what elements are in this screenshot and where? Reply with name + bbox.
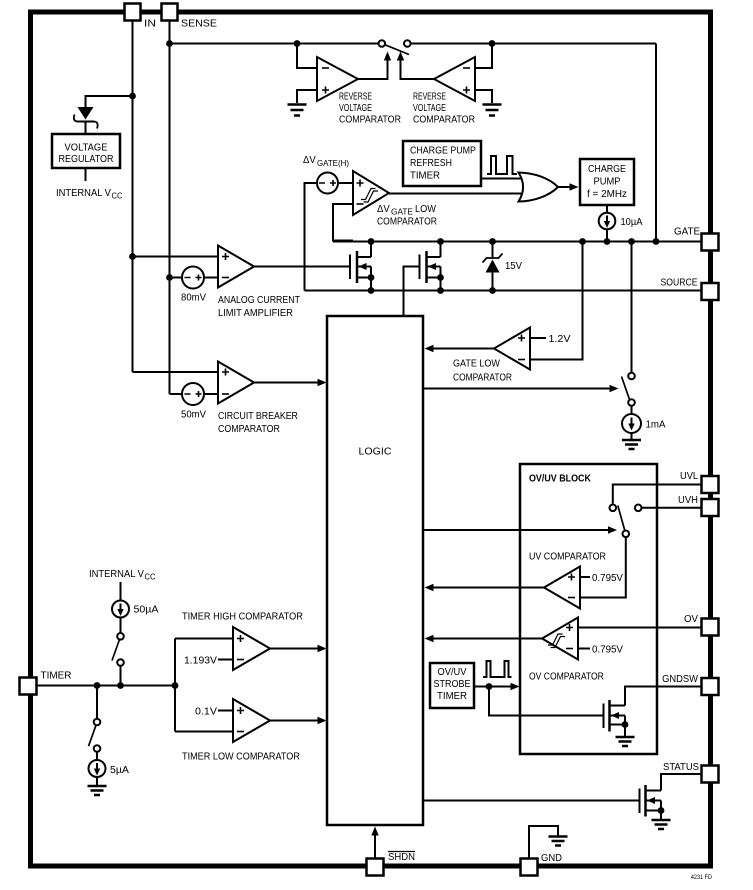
wire 50mV to minus input: [204, 393, 218, 395]
op-amp right reverse voltage comparator: [434, 57, 475, 101]
wire amp output to M1 gate: [254, 266, 350, 268]
wire M2 gate to LOGIC: [404, 267, 420, 317]
switch UV select: [610, 505, 642, 538]
wire SENSE to 80mV: [170, 277, 183, 279]
pin GNDSW: [662, 674, 718, 695]
svg-text:LIMIT AMPLIFIER: LIMIT AMPLIFIER: [218, 308, 293, 320]
wire strobe to GNDSW FET gate: [489, 687, 604, 716]
source 80mV offset: [182, 267, 204, 289]
wire regulator output: [85, 168, 87, 181]
svg-text:OV: OV: [684, 614, 698, 625]
svg-text:f = 2MHz: f = 2MHz: [587, 189, 627, 200]
wire IN to breaker plus input: [133, 371, 219, 373]
wire GATE rail: [333, 241, 702, 243]
op-amp analog current limit amplifier: [218, 246, 254, 288]
pin OV: [684, 614, 718, 636]
wire LOGIC to STATUS FET gate: [423, 800, 640, 802]
transistor GNDSW FET: [604, 700, 629, 736]
svg-text:SHDN: SHDN: [388, 852, 415, 864]
svg-text:INTERNAL V: INTERNAL V: [89, 569, 144, 581]
svg-text:UVH: UVH: [678, 495, 698, 507]
node SENSE to 80mV junction: [166, 274, 173, 281]
svg-text:TIMER: TIMER: [410, 170, 440, 181]
node GATE rail junctions: [368, 238, 660, 245]
op-amp timer high comparator: [233, 627, 270, 670]
op-amp timer low comparator: [233, 699, 270, 742]
transistor M1 pass FET: [350, 242, 374, 291]
svg-text:SENSE: SENSE: [181, 18, 217, 30]
label INTERNAL VCC: [56, 188, 123, 201]
svg-text:LOW: LOW: [415, 203, 437, 215]
svg-text:INTERNAL V: INTERNAL V: [56, 188, 111, 200]
wire right RV comp plus input: [475, 90, 492, 103]
pulse waveform refresh: [487, 156, 517, 174]
wire TIMER to discharge switch: [96, 686, 98, 719]
wire left RV comp plus input: [297, 90, 317, 103]
block LOGIC: [327, 316, 423, 825]
diode zener 15V: [483, 242, 503, 291]
wire SOURCE rail: [305, 290, 702, 292]
wire OV plus to OV pin: [578, 627, 702, 629]
svg-text:50mV: 50mV: [181, 409, 206, 420]
pin GATE: [674, 226, 718, 250]
node TIMER rail junctions: [94, 682, 179, 689]
wire UV comp output to LOGIC: [433, 587, 544, 589]
wire OR gate output arrow: [557, 186, 570, 188]
svg-text:GATE LOW: GATE LOW: [453, 358, 501, 370]
ground GND symbol: [549, 837, 568, 846]
svg-text:GATE(H): GATE(H): [317, 159, 349, 168]
svg-text:TIMER: TIMER: [41, 670, 72, 681]
wire VCC to 50uA: [120, 582, 122, 601]
source 50mV offset: [182, 383, 204, 405]
wire right RV comp output: [401, 59, 435, 79]
OR gate U-or: [519, 173, 559, 202]
svg-text:COMPARATOR: COMPARATOR: [453, 372, 512, 384]
svg-text:CHARGE: CHARGE: [588, 163, 626, 175]
label left reverse voltage comparator: [339, 90, 401, 126]
block CHARGE PUMP f=2MHz: [580, 159, 634, 205]
wire current amp plus input: [133, 256, 219, 258]
svg-text:REFRESH: REFRESH: [410, 157, 452, 169]
wire rail to GATE drop: [655, 44, 657, 242]
wire strobe timer output: [474, 686, 511, 688]
pin IN: [125, 4, 157, 30]
transistor M2 pass FET: [420, 242, 444, 291]
svg-text:ΔV: ΔV: [377, 204, 390, 216]
switch timer discharge: [89, 719, 101, 752]
wire offset source to SOURCE rail: [305, 183, 318, 291]
svg-text:CHARGE PUMP: CHARGE PUMP: [410, 145, 476, 157]
switch timer charge: [112, 633, 124, 666]
label right reverse voltage comparator: [413, 90, 475, 126]
op-amp OV comparator: [542, 618, 578, 660]
svg-text:COMPARATOR: COMPARATOR: [339, 114, 401, 126]
wire STATUS pin to FET drain: [661, 774, 702, 791]
node strobe output junction: [486, 683, 493, 690]
wire comparator output to OR gate: [389, 193, 521, 195]
label delta-V GATE LOW COMPARATOR: [377, 203, 437, 227]
svg-text:1.193V: 1.193V: [184, 655, 217, 666]
svg-text:OV/UV: OV/UV: [438, 667, 467, 679]
block OV/UV STROBE TIMER: [430, 663, 474, 708]
wire switch to TIMER rail: [120, 666, 122, 686]
label CIRCUIT BREAKER COMPARATOR: [218, 410, 298, 435]
label INTERNAL VCC timer: [89, 569, 156, 582]
pin GND: [521, 853, 562, 876]
wire OV comp output to LOGIC: [433, 638, 542, 640]
wire 1.2V to plus input: [530, 337, 546, 339]
svg-text:STROBE: STROBE: [434, 678, 471, 690]
wire UVL pin to switch: [613, 485, 702, 504]
shunt zener diode: [74, 107, 98, 134]
wire minus input to GATE rail: [530, 242, 583, 360]
wire 5uA to ground: [96, 777, 98, 785]
wire UVH pin to switch: [642, 507, 702, 509]
block OV/UV BLOCK: [520, 464, 657, 754]
node IN to current amp junction: [129, 253, 136, 260]
wire high comp output to LOGIC: [270, 648, 318, 650]
svg-text:IN: IN: [144, 18, 156, 29]
node rail right junction: [489, 40, 496, 47]
svg-text:VOLTAGE: VOLTAGE: [413, 102, 446, 114]
pin SENSE: [162, 4, 217, 30]
wire comparator minus to GATE rail: [333, 204, 353, 241]
wire breaker output to LOGIC: [254, 382, 318, 384]
svg-text:VOLTAGE: VOLTAGE: [65, 142, 108, 154]
wire 0.1V to plus input: [218, 710, 233, 712]
switch reverse-blocking: [379, 40, 411, 54]
svg-text:0.1V: 0.1V: [195, 706, 218, 718]
wire 50uA to switch: [120, 618, 122, 634]
pin SOURCE: [661, 277, 719, 300]
wire switch to UV comparator minus: [580, 537, 626, 597]
wire left RV comp minus input: [297, 44, 317, 69]
pulse waveform strobe: [483, 661, 512, 677]
wire SENSE vertical: [169, 21, 171, 395]
ground 1mA: [622, 440, 641, 449]
svg-text:1mA: 1mA: [646, 419, 666, 430]
wire timer branch vertical: [174, 639, 176, 732]
wire switch to 5uA: [96, 752, 98, 760]
svg-text:TIMER: TIMER: [437, 691, 467, 702]
ground STATUS FET: [652, 820, 671, 829]
wire switch to 1mA: [631, 406, 633, 415]
svg-text:COMPARATOR: COMPARATOR: [413, 114, 475, 126]
svg-text:SOURCE: SOURCE: [661, 277, 698, 289]
wire regulator tap: [86, 96, 133, 107]
svg-text:10µA: 10µA: [621, 217, 643, 229]
svg-text:ΔV: ΔV: [303, 155, 316, 167]
ground 5uA: [88, 786, 107, 795]
wire SENSE top rail: [170, 43, 379, 45]
current source 1mA: [622, 414, 641, 433]
label delta-V GATE(H): [303, 155, 349, 168]
block VOLTAGE REGULATOR: [52, 134, 120, 168]
svg-text:REVERSE: REVERSE: [339, 90, 372, 102]
svg-text:COMPARATOR: COMPARATOR: [377, 216, 437, 228]
wire left RV comp output: [358, 59, 388, 79]
svg-text:50µA: 50µA: [134, 604, 160, 616]
wire TIMER rail: [37, 685, 176, 687]
svg-text:UVL: UVL: [680, 471, 698, 483]
svg-text:CC: CC: [145, 572, 156, 581]
wire 1.193V to minus input: [218, 659, 233, 661]
pin STATUS: [663, 762, 718, 783]
svg-text:TIMER LOW COMPARATOR: TIMER LOW COMPARATOR: [182, 751, 300, 763]
ground left RV comp: [288, 105, 307, 116]
wire branch to high comp plus: [175, 638, 233, 640]
switch gate pulldown: [622, 373, 635, 406]
pin SHDN: [367, 852, 416, 876]
node regulator tap junction: [129, 93, 136, 100]
node SOURCE rail junctions: [368, 287, 496, 294]
svg-text:80mV: 80mV: [181, 292, 206, 303]
op-amp delta-V GATE LOW comparator: [353, 171, 389, 215]
node SENSE rail junction: [166, 40, 173, 47]
op-amp UV comparator: [544, 567, 580, 609]
svg-text:0.795V: 0.795V: [592, 573, 623, 584]
wire GATE rail to 1mA switch: [631, 242, 633, 373]
current source 50uA: [112, 601, 129, 618]
wire GND pin elbow: [529, 826, 558, 859]
ground GNDSW FET: [616, 737, 635, 746]
wire branch to low comp minus: [175, 731, 233, 733]
op-amp circuit breaker comparator: [218, 362, 254, 404]
svg-text:CIRCUIT BREAKER: CIRCUIT BREAKER: [218, 410, 298, 422]
wire 80mV to minus input: [204, 277, 218, 279]
svg-text:OV/UV BLOCK: OV/UV BLOCK: [529, 473, 591, 485]
op-amp left reverse voltage comparator: [317, 57, 358, 101]
svg-text:ANALOG CURRENT: ANALOG CURRENT: [218, 294, 300, 306]
pin TIMER: [20, 670, 72, 694]
svg-text:STATUS: STATUS: [663, 762, 699, 774]
svg-text:TIMER HIGH COMPARATOR: TIMER HIGH COMPARATOR: [182, 611, 303, 623]
wire IN vertical: [132, 21, 134, 373]
block CHARGE PUMP REFRESH TIMER: [403, 141, 481, 186]
svg-text:5µA: 5µA: [110, 764, 129, 776]
wire GNDSW pin to FET drain: [625, 687, 702, 706]
svg-text:15V: 15V: [505, 261, 522, 273]
wire gate low output to LOGIC: [433, 348, 494, 350]
current source 10uA: [599, 213, 616, 230]
svg-text:GNDSW: GNDSW: [662, 674, 698, 686]
wire offset source to comparator plus: [338, 182, 353, 184]
wire SENSE to 50mV: [170, 393, 183, 395]
svg-text:OV COMPARATOR: OV COMPARATOR: [529, 671, 604, 683]
transistor STATUS FET: [640, 785, 665, 819]
wire right RV comp minus input: [475, 44, 492, 69]
wire charge pump to 10uA: [606, 205, 608, 212]
wire 1mA to ground: [631, 433, 633, 439]
wire 10uA to GATE rail: [606, 230, 608, 242]
wire UV plus to 0.795V: [580, 576, 590, 578]
svg-text:GND: GND: [541, 853, 562, 865]
op-amp gate low comparator: [494, 328, 530, 370]
svg-text:GATE: GATE: [674, 226, 700, 237]
svg-text:1.2V: 1.2V: [549, 333, 572, 345]
svg-text:4231 FD: 4231 FD: [691, 875, 713, 881]
svg-text:REGULATOR: REGULATOR: [59, 153, 114, 165]
label GATE LOW COMPARATOR: [453, 358, 512, 384]
wire low comp output to LOGIC: [270, 720, 318, 722]
pin UVH: [678, 495, 718, 516]
wire LOGIC to UV switch arrow: [423, 529, 608, 531]
source delta-V GATE(H) offset: [317, 173, 338, 194]
wire SHDN arrow into LOGIC: [374, 835, 376, 859]
svg-text:VOLTAGE: VOLTAGE: [339, 102, 372, 114]
svg-text:0.795V: 0.795V: [592, 644, 623, 655]
wire refresh timer to OR gate: [481, 178, 521, 180]
wire LOGIC to switch arrow: [423, 388, 610, 390]
ground right RV comp: [483, 105, 502, 116]
svg-text:PUMP: PUMP: [594, 176, 621, 188]
wire OV minus to 0.795V: [578, 648, 590, 650]
svg-text:UV COMPARATOR: UV COMPARATOR: [529, 551, 606, 563]
node rail left junction: [294, 40, 301, 47]
svg-text:LOGIC: LOGIC: [359, 446, 392, 458]
label ANALOG CURRENT LIMIT AMPLIFIER: [218, 294, 300, 319]
svg-text:COMPARATOR: COMPARATOR: [218, 423, 280, 435]
svg-text:REVERSE: REVERSE: [413, 90, 446, 102]
current source 5uA: [89, 760, 106, 777]
pin UVL: [680, 471, 718, 493]
svg-text:CC: CC: [112, 191, 123, 200]
